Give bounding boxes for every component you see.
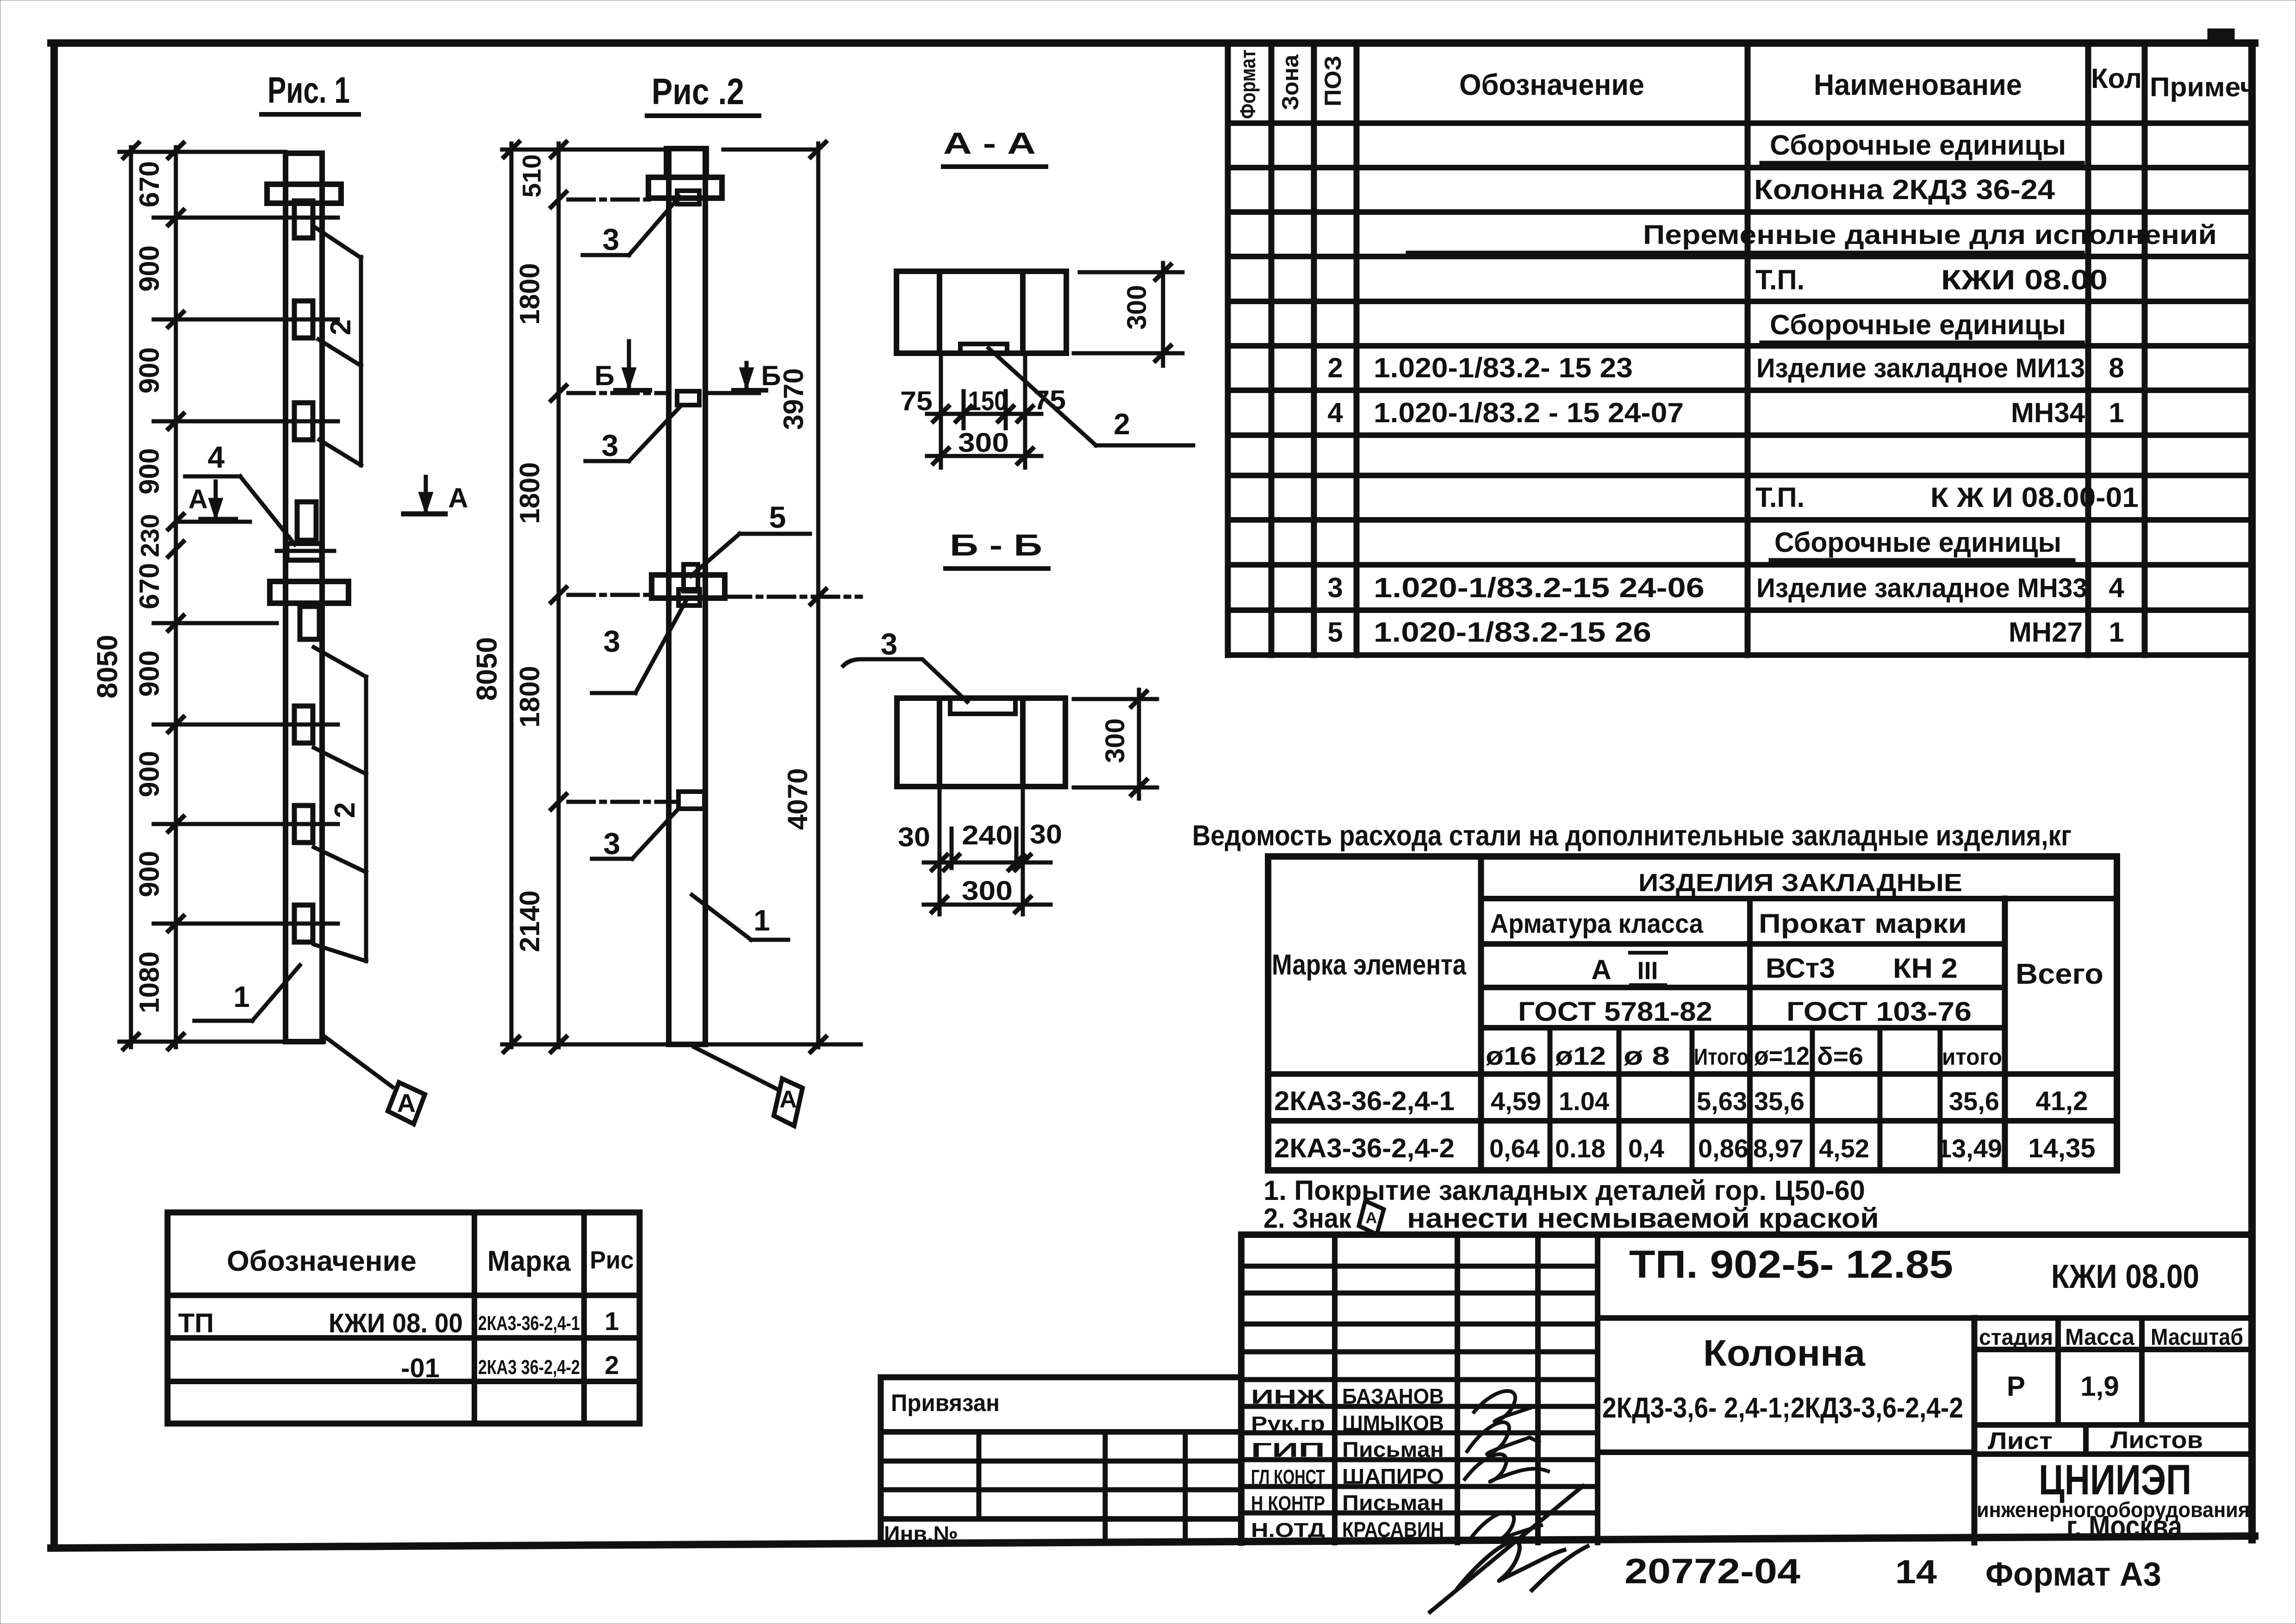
svg-text:ø=12: ø=12: [1754, 1041, 1810, 1070]
svg-text:Сборочные единицы: Сборочные единицы: [1770, 309, 2066, 340]
svg-text:Масштаб: Масштаб: [2151, 1324, 2243, 1350]
svg-text:2: 2: [329, 802, 361, 818]
svg-text:5,63: 5,63: [1697, 1087, 1747, 1116]
svg-text:А: А: [188, 484, 208, 514]
svg-text:К Ж И 08.00-01: К Ж И 08.00-01: [1930, 482, 2139, 513]
svg-text:δ=6: δ=6: [1817, 1043, 1863, 1070]
svg-text:ø 8: ø 8: [1624, 1041, 1670, 1070]
svg-text:300: 300: [958, 428, 1009, 458]
svg-text:8050: 8050: [471, 637, 503, 701]
svg-text:1,9: 1,9: [2080, 1371, 2119, 1402]
svg-text:Зона: Зона: [1277, 54, 1303, 110]
svg-text:А: А: [779, 1086, 797, 1113]
svg-text:670: 670: [134, 563, 165, 609]
svg-text:4070: 4070: [782, 768, 813, 830]
svg-text:стадия: стадия: [1979, 1325, 2053, 1350]
svg-text:ЦНИИЭП: ЦНИИЭП: [2039, 1456, 2191, 1504]
svg-text:14: 14: [1895, 1554, 1937, 1591]
svg-text:1.020-1/83.2-15 26: 1.020-1/83.2-15 26: [1374, 617, 1651, 648]
svg-text:4,59: 4,59: [1491, 1087, 1541, 1116]
svg-text:Итого: Итого: [1694, 1044, 1748, 1070]
svg-text:Н КОНТР: Н КОНТР: [1251, 1492, 1325, 1515]
svg-text:75: 75: [900, 386, 933, 416]
svg-text:0.18: 0.18: [1555, 1134, 1605, 1163]
svg-text:8: 8: [2109, 352, 2124, 383]
svg-text:1800: 1800: [514, 462, 545, 524]
svg-text:900: 900: [134, 245, 165, 292]
svg-text:240: 240: [962, 820, 1013, 850]
svg-text:Обозначение: Обозначение: [227, 1245, 417, 1277]
svg-text:КЖИ 08.00: КЖИ 08.00: [2051, 1258, 2199, 1295]
svg-text:510: 510: [517, 154, 546, 197]
svg-text:20772-04: 20772-04: [1624, 1552, 1800, 1591]
svg-text:0,86: 0,86: [1698, 1134, 1748, 1163]
svg-text:300: 300: [1122, 285, 1152, 330]
svg-text:Сборочные единицы: Сборочные единицы: [1774, 527, 2061, 558]
svg-text:Формат: Формат: [1236, 50, 1260, 119]
svg-text:2КА3 36-2,4-2: 2КА3 36-2,4-2: [478, 1356, 580, 1379]
svg-text:Н.ОТД: Н.ОТД: [1251, 1519, 1325, 1542]
svg-text:ø16: ø16: [1486, 1041, 1537, 1070]
svg-text:ПОЗ: ПОЗ: [1320, 56, 1346, 106]
svg-text:ИНЖ: ИНЖ: [1251, 1386, 1325, 1408]
svg-text:900: 900: [134, 448, 165, 494]
svg-text:Обозначение: Обозначение: [1459, 68, 1644, 101]
svg-text:Прокат марки: Прокат марки: [1759, 909, 1967, 939]
svg-text:Колонна: Колонна: [1703, 1332, 1866, 1374]
svg-text:2. Знак: 2. Знак: [1263, 1203, 1352, 1234]
svg-text:Изделие закладное МН33: Изделие закладное МН33: [1756, 573, 2087, 603]
svg-text:Примеч: Примеч: [2150, 72, 2256, 102]
svg-text:900: 900: [134, 650, 165, 697]
svg-text:Ведомость расхода стали на до: Ведомость расхода стали на дополнительны…: [1192, 820, 2072, 852]
svg-text:4: 4: [1327, 397, 1343, 428]
svg-text:Масса: Масса: [2065, 1324, 2135, 1350]
svg-text:75: 75: [1033, 385, 1066, 415]
svg-text:Арматура класса: Арматура класса: [1490, 909, 1704, 939]
svg-text:ГЛ КОНСТ: ГЛ КОНСТ: [1251, 1466, 1325, 1488]
svg-text:900: 900: [134, 851, 165, 897]
svg-text:3: 3: [603, 222, 620, 256]
svg-text:1.020-1/83.2 - 15 24-07: 1.020-1/83.2 - 15 24-07: [1374, 397, 1684, 428]
svg-text:0,64: 0,64: [1489, 1134, 1540, 1163]
svg-text:2КА3-36-2,4-2: 2КА3-36-2,4-2: [1274, 1133, 1455, 1163]
svg-text:150: 150: [968, 386, 1008, 416]
svg-text:3: 3: [604, 826, 621, 861]
svg-text:1: 1: [2109, 397, 2124, 428]
svg-text:35,6: 35,6: [1754, 1087, 1804, 1116]
svg-text:Б: Б: [594, 360, 614, 391]
svg-text:670: 670: [134, 161, 165, 207]
svg-text:300: 300: [962, 876, 1013, 906]
svg-text:А: А: [1366, 1209, 1377, 1227]
svg-text:КН 2: КН 2: [1893, 953, 1958, 984]
svg-text:3: 3: [1327, 572, 1343, 603]
svg-text:2: 2: [604, 1350, 619, 1380]
svg-text:41,2: 41,2: [2036, 1086, 2088, 1116]
svg-text:ГИП: ГИП: [1251, 1439, 1325, 1462]
svg-text:А: А: [397, 1088, 416, 1118]
svg-text:Кол: Кол: [2091, 63, 2142, 94]
svg-text:30: 30: [898, 822, 930, 852]
svg-text:1: 1: [753, 904, 770, 937]
svg-text:Всего: Всего: [2016, 958, 2103, 990]
svg-text:III: III: [1637, 957, 1658, 985]
svg-text:2: 2: [325, 319, 357, 335]
svg-text:Т.П.: Т.П.: [1755, 264, 1804, 295]
svg-text:1800: 1800: [514, 666, 545, 727]
svg-text:1: 1: [604, 1306, 619, 1336]
svg-text:4: 4: [208, 440, 225, 474]
svg-text:900: 900: [134, 751, 165, 797]
svg-text:1800: 1800: [514, 263, 545, 325]
svg-text:2КА3-36-2,4-1: 2КА3-36-2,4-1: [478, 1312, 580, 1335]
svg-text:3: 3: [881, 627, 898, 661]
svg-text:Инв.№: Инв.№: [884, 1522, 958, 1547]
svg-text:4,52: 4,52: [1819, 1134, 1869, 1163]
svg-text:Лист: Лист: [1988, 1428, 2053, 1455]
svg-text:ШМЫКОВ: ШМЫКОВ: [1342, 1411, 1444, 1435]
svg-text:8050: 8050: [92, 635, 124, 699]
svg-text:Колонна 2КД3 36-24: Колонна 2КД3 36-24: [1754, 174, 2055, 205]
svg-text:3970: 3970: [778, 368, 809, 430]
svg-text:1.04: 1.04: [1559, 1087, 1609, 1116]
svg-text:КЖИ 08.00: КЖИ 08.00: [1941, 264, 2108, 295]
svg-text:1. Покрытие закладных детале: 1. Покрытие закладных деталей гор. Ц50-6…: [1263, 1175, 1865, 1206]
svg-text:Б: Б: [761, 360, 781, 391]
svg-text:900: 900: [134, 347, 165, 394]
svg-text:ø12: ø12: [1555, 1041, 1606, 1070]
svg-text:Письман: Письман: [1342, 1491, 1444, 1515]
svg-text:Письман: Письман: [1342, 1437, 1444, 1462]
svg-text:ТП: ТП: [178, 1308, 214, 1338]
svg-text:3: 3: [604, 624, 621, 658]
svg-text:ГОСТ 5781-82: ГОСТ 5781-82: [1518, 997, 1712, 1027]
svg-text:1: 1: [2109, 617, 2124, 648]
svg-text:Т.П.: Т.П.: [1755, 482, 1804, 513]
svg-text:2: 2: [1327, 352, 1343, 383]
svg-text:Марка элемента: Марка элемента: [1272, 949, 1466, 981]
svg-text:0,4: 0,4: [1628, 1134, 1664, 1163]
svg-text:Рис. 1: Рис. 1: [268, 69, 350, 111]
svg-text:А: А: [448, 482, 468, 513]
svg-text:А: А: [1591, 954, 1611, 985]
svg-text:Изделие закладное МИ13: Изделие закладное МИ13: [1756, 353, 2085, 383]
svg-text:КРАСАВИН: КРАСАВИН: [1342, 1518, 1444, 1542]
svg-text:2140: 2140: [514, 890, 545, 952]
svg-text:ГОСТ 103-76: ГОСТ 103-76: [1786, 997, 1972, 1027]
svg-text:1.020-1/83.2- 15 23: 1.020-1/83.2- 15 23: [1374, 352, 1633, 383]
svg-text:5: 5: [1327, 617, 1343, 648]
svg-text:Листов: Листов: [2110, 1427, 2203, 1454]
svg-text:30: 30: [1030, 819, 1062, 849]
svg-text:Сборочные единицы: Сборочные единицы: [1770, 130, 2066, 161]
svg-text:МН27: МН27: [2009, 617, 2083, 648]
svg-text:Б - Б: Б - Б: [950, 528, 1042, 562]
svg-text:ШАПИРО: ШАПИРО: [1342, 1464, 1444, 1488]
svg-text:ИЗДЕЛИЯ ЗАКЛАДНЫЕ: ИЗДЕЛИЯ ЗАКЛАДНЫЕ: [1638, 869, 1962, 897]
svg-text:14,35: 14,35: [2028, 1133, 2095, 1163]
svg-text:Переменные данные для испол: Переменные данные для исполнений: [1643, 220, 2217, 250]
svg-text:-01: -01: [401, 1353, 440, 1383]
svg-text:г. Москва: г. Москва: [2066, 1509, 2183, 1543]
svg-text:нанести несмываемой краской: нанести несмываемой краской: [1407, 1203, 1879, 1234]
svg-text:Рук.гр: Рук.гр: [1251, 1412, 1325, 1435]
svg-text:Рис .2: Рис .2: [652, 71, 744, 112]
svg-text:ВСт3: ВСт3: [1766, 953, 1835, 984]
svg-text:Рис: Рис: [590, 1246, 634, 1274]
svg-text:300: 300: [1100, 718, 1130, 763]
svg-text:Марка: Марка: [487, 1245, 571, 1277]
svg-text:ТП. 902-5- 12.85: ТП. 902-5- 12.85: [1629, 1243, 1953, 1286]
svg-text:итого: итого: [1942, 1044, 2002, 1070]
svg-text:1080: 1080: [134, 951, 165, 1013]
svg-text:Формат А3: Формат А3: [1985, 1556, 2161, 1593]
svg-text:230: 230: [135, 514, 164, 557]
svg-text:3: 3: [602, 428, 619, 462]
svg-text:А - А: А - А: [943, 126, 1036, 160]
svg-text:Привязан: Привязан: [891, 1390, 1000, 1417]
svg-text:2КД3-3,6- 2,4-1;2КД3-3,6-2,4-2: 2КД3-3,6- 2,4-1;2КД3-3,6-2,4-2: [1602, 1392, 1963, 1424]
svg-text:2КА3-36-2,4-1: 2КА3-36-2,4-1: [1274, 1086, 1455, 1116]
svg-text:2: 2: [1114, 407, 1130, 441]
svg-text:1: 1: [233, 980, 250, 1013]
svg-text:1.020-1/83.2-15 24-06: 1.020-1/83.2-15 24-06: [1374, 572, 1705, 603]
svg-text:БАЗАНОВ: БАЗАНОВ: [1342, 1384, 1444, 1408]
svg-text:35,6: 35,6: [1949, 1087, 1999, 1116]
svg-text:КЖИ 08. 00: КЖИ 08. 00: [329, 1308, 463, 1338]
svg-text:5: 5: [769, 500, 786, 534]
svg-text:4: 4: [2109, 572, 2124, 603]
svg-text:Наименование: Наименование: [1814, 68, 2022, 101]
svg-text:МН34: МН34: [2011, 397, 2085, 428]
svg-text:8,97: 8,97: [1753, 1134, 1804, 1163]
svg-text:Р: Р: [2007, 1371, 2025, 1402]
svg-text:13,49: 13,49: [1937, 1134, 2002, 1163]
